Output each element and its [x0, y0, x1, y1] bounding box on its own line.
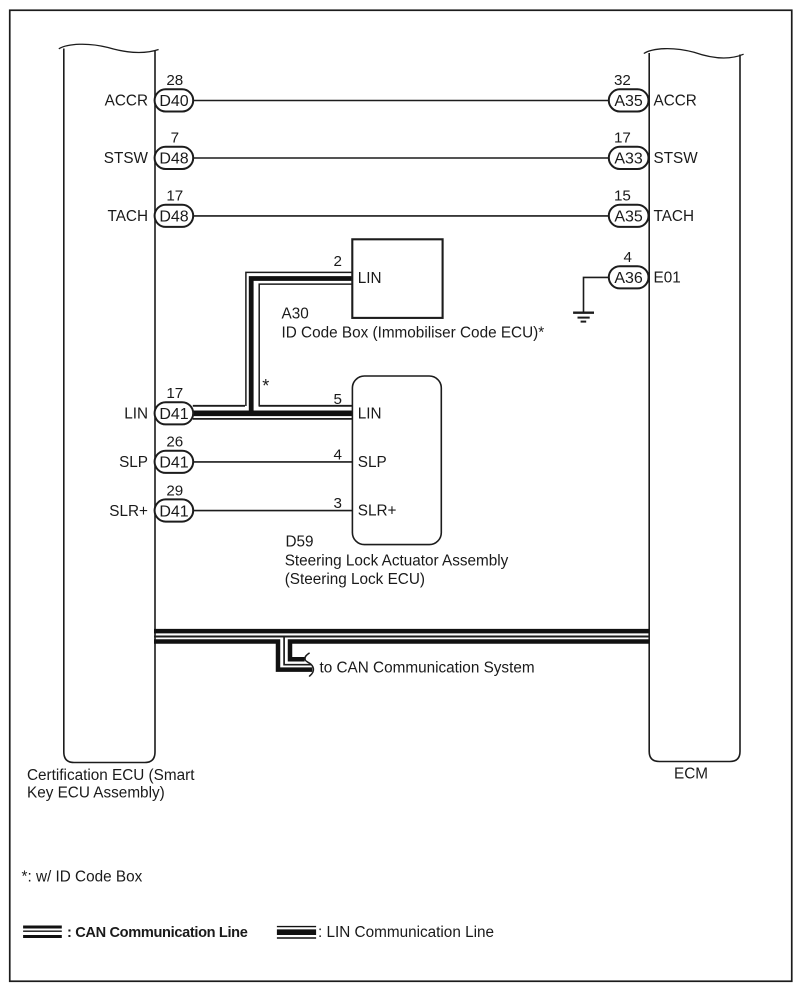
svg-text:A30: A30 — [282, 306, 309, 323]
wire SLP net: D41 pin 26 to D59 pin 4 — [193, 461, 352, 463]
wire SLR+ net: D41 pin 29 to D59 pin 3 — [193, 510, 352, 512]
connector A35 (ACCR) — [609, 89, 649, 111]
svg-text:LIN: LIN — [124, 406, 148, 423]
connector D40 — [155, 89, 194, 111]
svg-text:A36: A36 — [614, 270, 643, 287]
wire CAN bus trunk middle thin line — [154, 636, 649, 638]
svg-text:17: 17 — [166, 188, 183, 205]
svg-text:D41: D41 — [159, 503, 188, 520]
svg-text:D40: D40 — [159, 93, 188, 110]
wire TACH net: D48 pin 17 to A35 pin 15 — [193, 215, 609, 217]
svg-text:A35: A35 — [614, 209, 643, 226]
connector D41 (SLP) — [155, 451, 194, 473]
svg-text:ACCR: ACCR — [105, 93, 148, 110]
svg-text:32: 32 — [614, 72, 631, 89]
svg-text:LIN: LIN — [358, 270, 382, 287]
svg-text:3: 3 — [334, 495, 342, 512]
wire CAN bus trunk top thick line — [154, 629, 649, 634]
svg-text:SLR+: SLR+ — [109, 503, 148, 520]
svg-text:5: 5 — [334, 391, 342, 408]
wire STSW net: D48 pin 7 to A33 pin 17 — [193, 157, 609, 159]
wire E01 net: A36 pin 4 to ground — [584, 277, 610, 311]
legend swatch: CAN Communication Line — [23, 927, 62, 937]
svg-text:29: 29 — [166, 482, 183, 499]
svg-text:Key ECU Assembly): Key ECU Assembly) — [27, 785, 165, 802]
legend swatch: LIN Communication Line — [277, 927, 316, 938]
wire LIN bus: D41 pin 17 to D59 pin 5 (thin-thick-thin LIN line) — [193, 406, 353, 419]
svg-text:SLR+: SLR+ — [358, 503, 397, 520]
label: Certification ECU (Smart Key ECU Assembly) — [27, 767, 195, 802]
svg-text:4: 4 — [334, 447, 342, 464]
wire CAN bus bottom thick line left segment + outer stub elbow — [154, 642, 312, 670]
svg-text:STSW: STSW — [104, 150, 149, 167]
svg-text:SLP: SLP — [119, 454, 148, 471]
svg-text:*: w/ ID Code Box: *: w/ ID Code Box — [22, 868, 143, 885]
wire CAN stub middle thin elbow — [284, 637, 311, 665]
svg-text:17: 17 — [614, 130, 631, 147]
svg-text:7: 7 — [171, 130, 179, 147]
svg-text:28: 28 — [166, 72, 183, 89]
svg-text:Certification ECU (Smart: Certification ECU (Smart — [27, 767, 195, 784]
svg-text:TACH: TACH — [654, 208, 695, 225]
svg-text:D48: D48 — [159, 151, 188, 168]
svg-text:(Steering Lock ECU): (Steering Lock ECU) — [285, 571, 425, 588]
svg-text:A35: A35 — [614, 93, 643, 110]
label: D59 Steering Lock Actuator Assembly (Steering Lock ECU) — [285, 533, 509, 588]
connector A33 (STSW) — [609, 147, 649, 169]
connector A35 (TACH) — [609, 205, 649, 227]
svg-text:STSW: STSW — [654, 150, 699, 167]
svg-text:17: 17 — [166, 385, 183, 402]
svg-text:2: 2 — [334, 253, 342, 270]
connector D48 (STSW) — [155, 147, 194, 169]
svg-text:ECM: ECM — [674, 766, 708, 783]
svg-text:D41: D41 — [159, 406, 188, 423]
wire CAN bus bottom thick line right segment + inner stub elbow — [290, 642, 649, 660]
IC D59: Steering Lock Actuator Assembly (Steering Lock ECU) — [352, 376, 441, 545]
ECU U1: Certification ECU (Smart Key ECU Assembly) box — [59, 44, 159, 762]
svg-text:A33: A33 — [614, 151, 643, 168]
svg-text:E01: E01 — [654, 270, 681, 287]
svg-text:: LIN Communication Line: : LIN Communication Line — [318, 924, 494, 941]
connector D41 (LIN) — [155, 402, 194, 424]
IC A30: ID Code Box (Immobiliser Code ECU) — [352, 239, 442, 318]
svg-text:4: 4 — [623, 249, 631, 266]
label: A30 ID Code Box (Immobiliser Code ECU)* — [282, 306, 545, 342]
svg-text:D59: D59 — [286, 533, 314, 550]
svg-text:15: 15 — [614, 188, 631, 205]
svg-text:TACH: TACH — [107, 208, 148, 225]
svg-text:: CAN Communication Line: : CAN Communication Line — [67, 925, 248, 941]
connector D41 (SLR+) — [155, 499, 194, 521]
svg-text:LIN: LIN — [358, 406, 382, 423]
svg-text:ACCR: ACCR — [654, 93, 697, 110]
squiggle continuation symbol (to CAN Communication System) — [305, 653, 313, 677]
svg-text:Steering Lock Actuator Assembl: Steering Lock Actuator Assembly — [285, 553, 509, 570]
svg-text:*: * — [262, 376, 269, 396]
wire ACCR net: D40 pin 28 to A35 pin 32 — [193, 100, 609, 102]
svg-text:SLP: SLP — [358, 454, 387, 471]
svg-text:D48: D48 — [159, 209, 188, 226]
connector A36 (E01) — [609, 266, 649, 288]
ECU U2: ECM box — [644, 49, 744, 762]
svg-text:ID Code Box (Immobiliser Code: ID Code Box (Immobiliser Code ECU)* — [282, 325, 545, 342]
svg-text:to CAN Communication System: to CAN Communication System — [320, 660, 535, 677]
svg-text:D41: D41 — [159, 455, 188, 472]
wire LIN branch to A30 pin 2 (thin-thick-thin LIN line) — [246, 272, 353, 413]
connector D48 (TACH) — [155, 205, 194, 227]
svg-text:26: 26 — [166, 434, 183, 451]
ground — [573, 313, 594, 322]
